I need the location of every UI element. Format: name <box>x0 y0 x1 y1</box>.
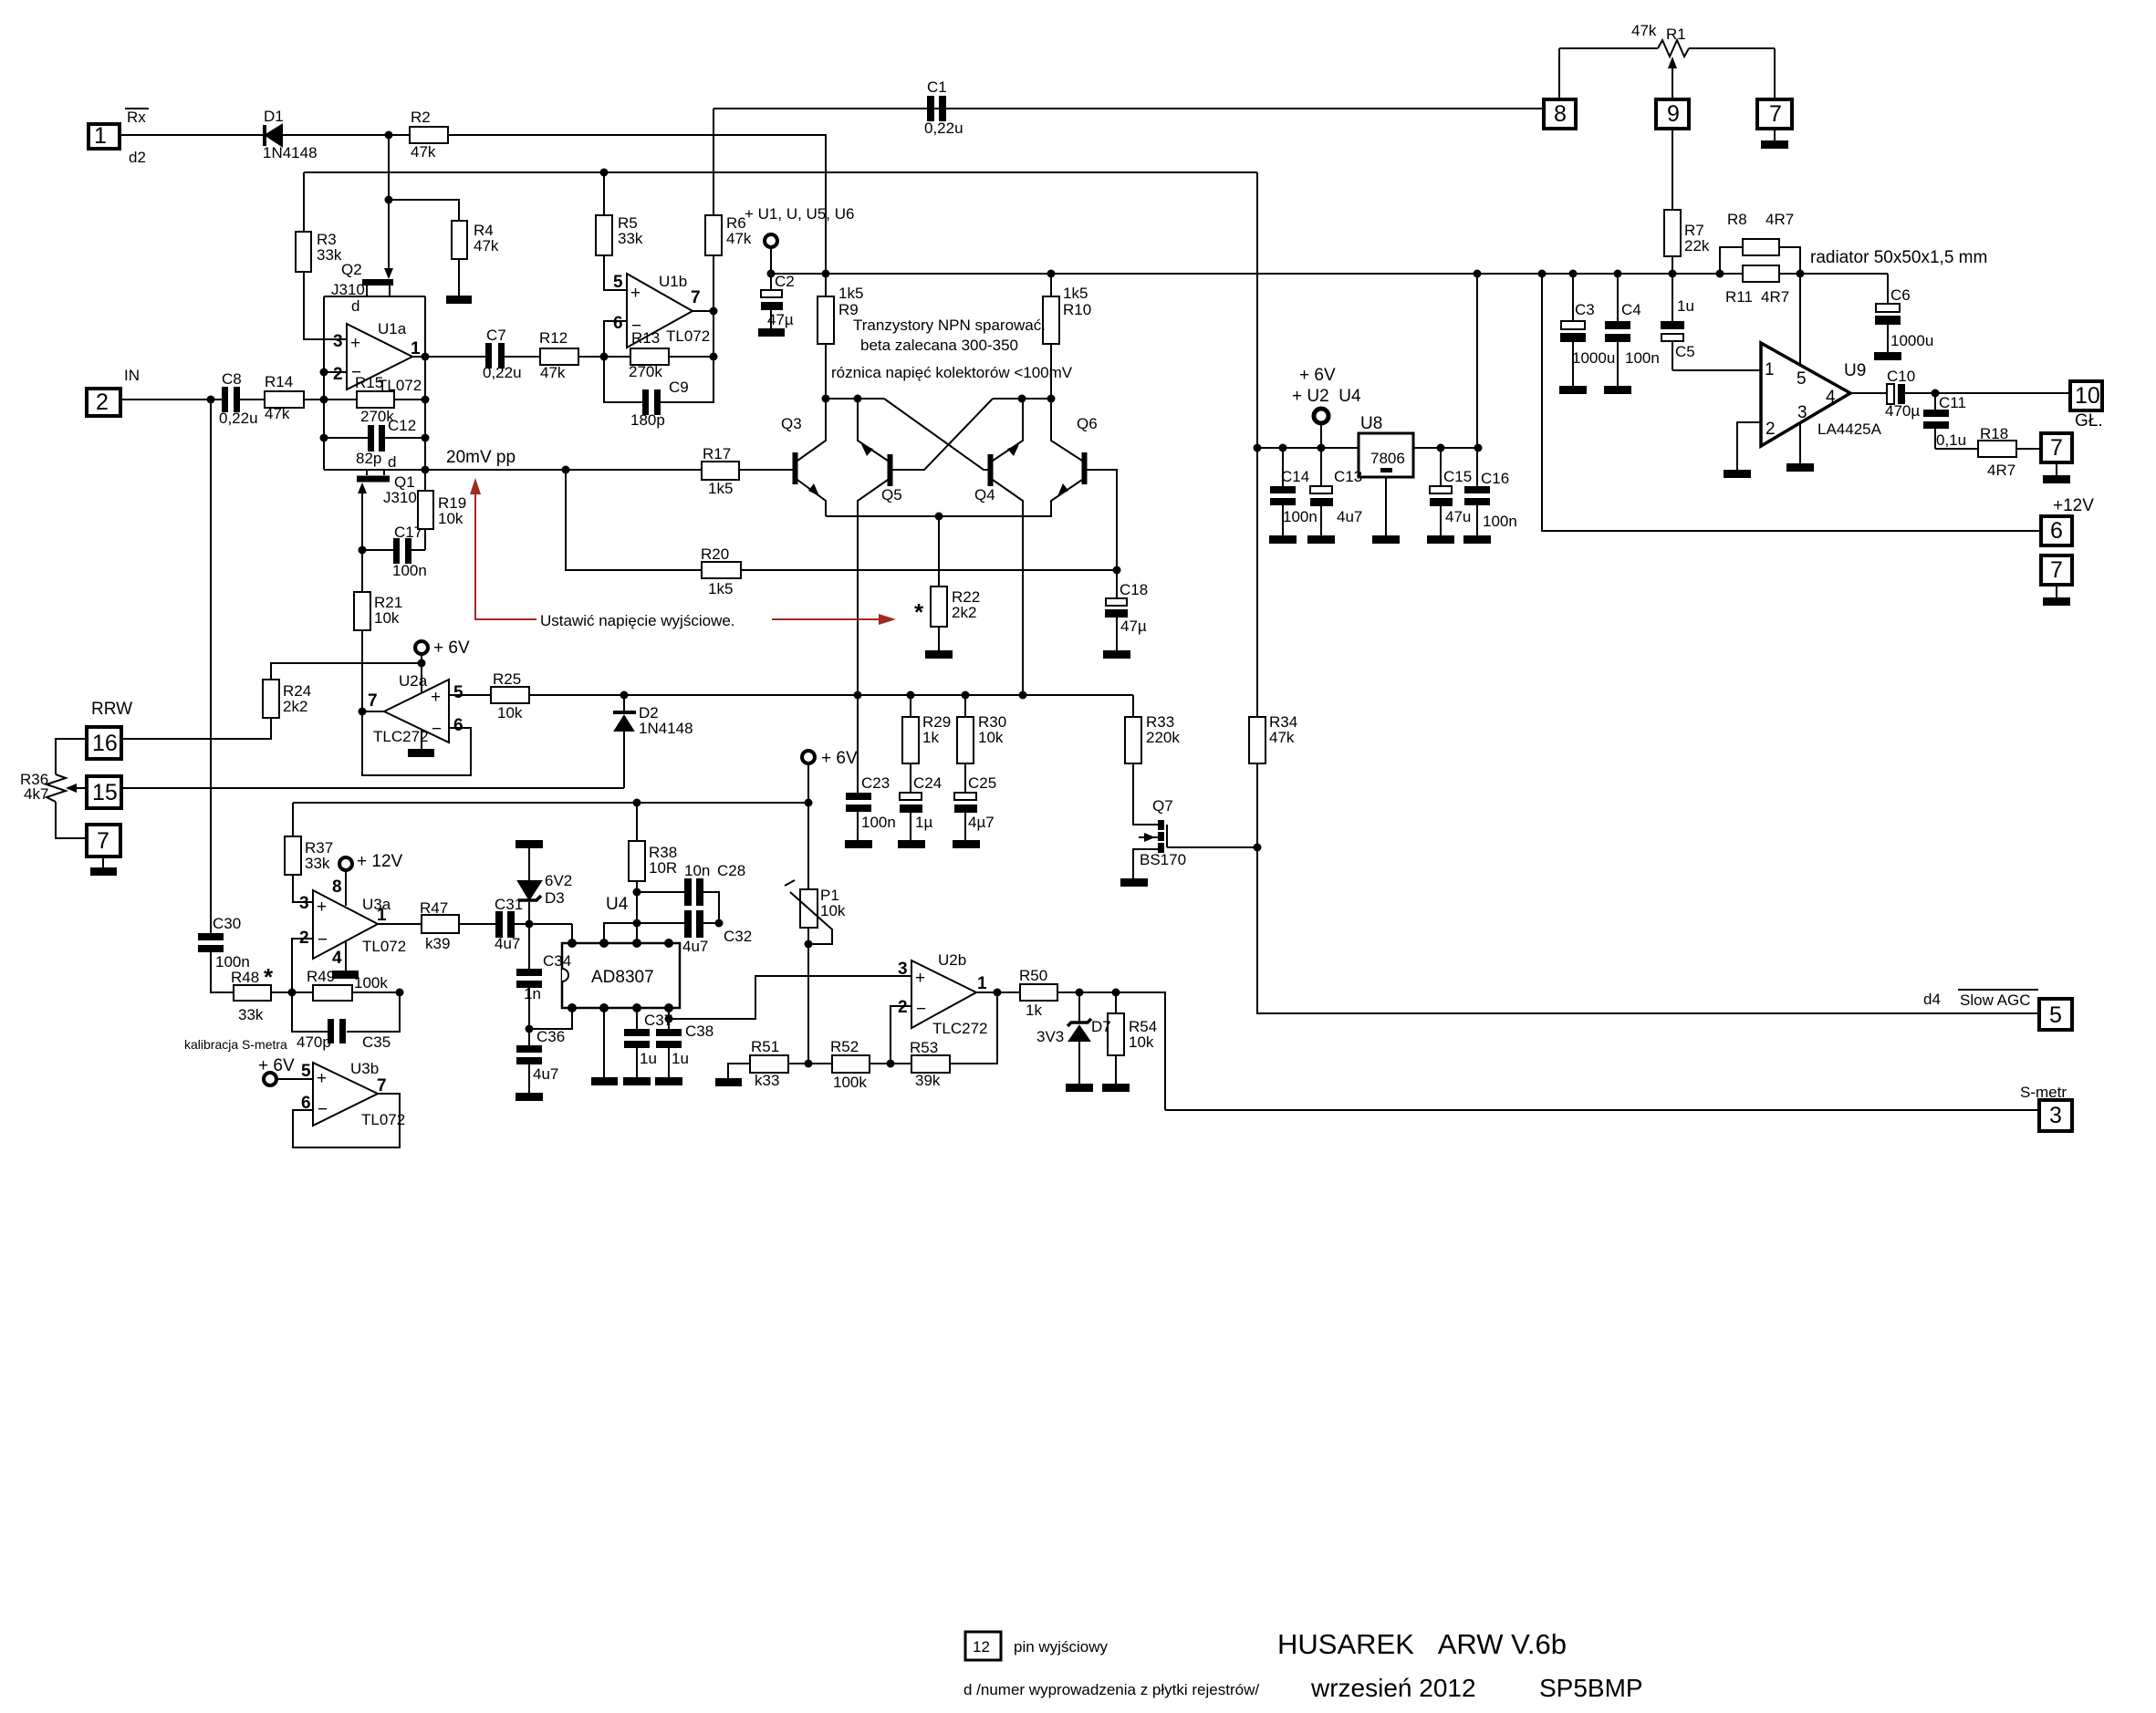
svg-text:R53: R53 <box>910 1039 938 1056</box>
node dot D3/C34 <box>526 920 534 929</box>
node junction dot at R2 left <box>385 131 393 140</box>
svg-text:1u: 1u <box>1677 297 1694 315</box>
svg-text:4R7: 4R7 <box>1761 288 1789 306</box>
wire box7top top <box>1774 48 1776 99</box>
svg-text:R14: R14 <box>265 373 293 390</box>
svg-text:d: d <box>388 453 396 471</box>
svg-text:4R7: 4R7 <box>1765 211 1794 228</box>
node dot U2a power <box>418 659 426 668</box>
svg-text:4u7: 4u7 <box>682 938 708 955</box>
svg-text:47u: 47u <box>1445 508 1471 525</box>
capacitor C6 1000u electrolytic <box>1875 274 1901 352</box>
node dot C36 top <box>526 1025 534 1033</box>
wire 20mV pp row <box>324 469 702 471</box>
wire Q3 emitter with arrow <box>797 480 826 516</box>
svg-text:U9: U9 <box>1844 361 1866 380</box>
wire R20 branch vertical <box>566 470 702 570</box>
svg-text:4u7: 4u7 <box>533 1065 558 1083</box>
resistor R6 47k <box>705 215 722 255</box>
svg-text:C28: C28 <box>717 862 745 879</box>
node dot C2 <box>767 270 776 278</box>
resistor R48 33k <box>234 985 271 1001</box>
node dot P1 wiper tie <box>805 940 813 949</box>
svg-text:d4: d4 <box>1923 991 1941 1008</box>
node dot C8 junction <box>207 396 215 404</box>
svg-text:beta zalecana 300-350: beta zalecana 300-350 <box>860 337 1018 354</box>
wire U9 pin3 to ground <box>1799 422 1801 463</box>
svg-text:33k: 33k <box>238 1006 264 1023</box>
node dot R29 top <box>907 691 915 700</box>
wire C31 to U4 node <box>515 923 572 925</box>
wire Q5 emitter down to AGC bus <box>858 480 888 695</box>
capacitor C30 100n <box>198 933 224 952</box>
wire U3b feedback loop <box>293 1094 400 1147</box>
wire U1a box right vertical <box>424 296 426 470</box>
label Slow AGC with overline <box>1958 990 2038 1009</box>
svg-text:wrzesień 2012: wrzesień 2012 <box>1310 1674 1476 1702</box>
svg-text:R52: R52 <box>830 1038 859 1055</box>
svg-text:33k: 33k <box>618 230 643 247</box>
op-amp U3b triangle TL072 <box>313 1063 378 1126</box>
svg-text:1: 1 <box>411 339 421 358</box>
wire box16 to R36 top <box>56 739 87 774</box>
svg-text:C16: C16 <box>1481 470 1509 487</box>
wire U4 output to U2b pin3 <box>669 976 911 1019</box>
svg-text:R8: R8 <box>1727 211 1747 228</box>
svg-text:12: 12 <box>973 1638 990 1656</box>
node dot C17 left <box>359 546 367 555</box>
wire U1b output to R6 vertical <box>693 310 713 312</box>
wire +6V down to node <box>421 654 422 663</box>
wire Q2 drain stub <box>389 285 391 296</box>
svg-text:AD8307: AD8307 <box>591 968 654 987</box>
P1 wiper diagonal <box>785 880 832 944</box>
node dot C3 <box>1569 270 1578 278</box>
wire R20 to C18 <box>741 569 1117 571</box>
wire C7 to R12 <box>505 356 540 358</box>
U4 notch <box>562 969 568 981</box>
svg-text:33k: 33k <box>317 246 342 264</box>
wire R19 bottom to C17 row <box>424 529 426 550</box>
svg-text:HUSAREK ARW V.6b: HUSAREK ARW V.6b <box>1277 1628 1567 1660</box>
ground left of R51 <box>715 1078 742 1086</box>
svg-text:U8: U8 <box>1360 414 1382 433</box>
svg-text:−: − <box>318 1100 328 1119</box>
wire R12 to R13 <box>578 356 630 358</box>
svg-text:C38: C38 <box>685 1023 713 1040</box>
transistor Q2 J310 bar <box>362 279 393 285</box>
node dot U1a output <box>422 353 430 361</box>
ground under box7 RRW <box>90 867 117 876</box>
svg-text:20mV pp: 20mV pp <box>446 448 516 467</box>
wire U9 pin5 from rail <box>1799 274 1801 375</box>
resistor R25 10k <box>491 687 529 703</box>
svg-text:d: d <box>351 297 359 315</box>
svg-text:1k5: 1k5 <box>708 480 733 497</box>
node dot box6 branch <box>1538 270 1547 278</box>
node dots U4 bottom pins <box>568 1003 673 1012</box>
svg-text:SP5BMP: SP5BMP <box>1539 1674 1643 1702</box>
svg-text:270k: 270k <box>629 363 662 380</box>
svg-text:4u7: 4u7 <box>495 935 520 952</box>
svg-text:+ U1, U, U5, U6: + U1, U, U5, U6 <box>745 205 854 223</box>
svg-text:−: − <box>916 1000 926 1019</box>
svg-text:8: 8 <box>1554 101 1567 127</box>
diode D1 1N4148 <box>265 125 282 146</box>
svg-text:C32: C32 <box>724 928 752 945</box>
wire R52 to R53 <box>870 1063 911 1064</box>
wire R37 to U3a pin3 <box>293 875 313 902</box>
svg-text:U1a: U1a <box>378 320 407 337</box>
op-amp U2b triangle TLC272 <box>911 960 976 1028</box>
wire R21 to U2a pin7 <box>362 630 384 711</box>
svg-text:Tranzystory NPN sparować.: Tranzystory NPN sparować. <box>853 317 1046 334</box>
capacitor C16 100n <box>1464 274 1490 535</box>
svg-text:U4: U4 <box>606 895 629 914</box>
node dot R51/R52 <box>805 1060 813 1068</box>
ground under C16 <box>1463 535 1491 544</box>
ground under C3 <box>1559 386 1587 394</box>
wire Q6 emitter with arrow <box>1051 480 1082 516</box>
resistor R54 10k <box>1108 992 1124 1084</box>
arrow Q7 body <box>1139 833 1158 842</box>
capacitor C32 4u7 <box>637 910 719 938</box>
ground under U3a <box>332 971 359 979</box>
capacitor C23 100n <box>846 695 871 840</box>
wire C2 top <box>770 274 772 290</box>
wire collector bus right (R10 node) <box>993 398 1051 400</box>
wire Q1 source stub <box>366 470 368 475</box>
svg-text:R47: R47 <box>420 899 448 917</box>
node dot C12 right <box>422 434 430 442</box>
wire R33 branch <box>1132 695 1134 717</box>
svg-text:1: 1 <box>1765 360 1775 379</box>
resistor R18 4R7 <box>1978 441 2016 457</box>
svg-text:2k2: 2k2 <box>283 698 307 715</box>
capacitor C5 1u electrolytic <box>1661 274 1684 370</box>
wire C36 node to U4 pin bottom left <box>529 1008 572 1029</box>
svg-text:kalibracja S-metra: kalibracja S-metra <box>184 1037 287 1052</box>
resistor R34 47k <box>1249 717 1265 763</box>
node dot R14/R15 <box>320 396 328 404</box>
svg-text:D7: D7 <box>1091 1018 1111 1035</box>
svg-text:6: 6 <box>613 314 623 333</box>
node Rx label <box>94 109 149 166</box>
svg-text:C30: C30 <box>213 915 241 932</box>
wire +6V to U3b pin5 <box>276 1078 313 1080</box>
wire branch to R4 <box>389 200 459 221</box>
svg-text:5: 5 <box>613 273 623 292</box>
resistor R3 33k <box>296 232 311 272</box>
svg-text:pin wyjściowy: pin wyjściowy <box>1014 1638 1108 1656</box>
svg-text:1k: 1k <box>1026 1002 1042 1019</box>
wire U2a feedback pin6 loop <box>362 711 471 775</box>
wire U1a output to right vertical <box>412 356 425 358</box>
capacitor C28 10n <box>637 878 719 910</box>
svg-text:C5: C5 <box>1675 343 1695 360</box>
node dot R7/C5 <box>1669 270 1677 278</box>
resistor R1 47k potentiometer top <box>1559 40 1775 57</box>
svg-text:100k: 100k <box>354 974 388 991</box>
svg-text:100n: 100n <box>861 814 896 831</box>
svg-text:C9: C9 <box>669 379 689 396</box>
capacitor C11 0,1u <box>1923 393 1949 449</box>
svg-text:−: − <box>631 317 641 336</box>
resistor R49 100k <box>313 985 352 1001</box>
wire R4 to ground <box>458 259 460 296</box>
wire R36 bottom to box7 <box>56 802 87 838</box>
wire C18 to ground <box>1116 618 1118 650</box>
power terminal +6V circle (P1) <box>802 751 815 763</box>
svg-text:U2b: U2b <box>938 951 966 969</box>
ground under box 7 top <box>1761 140 1788 149</box>
svg-text:1k5: 1k5 <box>1063 285 1088 302</box>
op-amp U3a triangle TL072 <box>313 890 378 959</box>
svg-text:róznica napięć kolektorów <100: róznica napięć kolektorów <100mV <box>831 364 1073 381</box>
red annotation arrow right at R22 <box>772 614 896 625</box>
svg-text:+: + <box>915 969 925 988</box>
wire D1 to R2 <box>282 134 410 136</box>
svg-text:1000u: 1000u <box>1890 332 1933 349</box>
wire B main AGC line y=189 <box>304 171 1257 173</box>
svg-text:d2: d2 <box>129 149 146 166</box>
resistor R21 10k <box>354 592 370 630</box>
power terminal +6V circle (U3b) <box>264 1073 276 1085</box>
svg-text:47k: 47k <box>265 405 290 422</box>
resistor R20 1k5 <box>702 562 741 578</box>
wire R6 vertical with corner to C1 wire <box>713 109 714 402</box>
svg-text:7: 7 <box>368 691 378 711</box>
svg-text:1u: 1u <box>640 1050 657 1067</box>
svg-text:R50: R50 <box>1019 967 1047 984</box>
wire R13 right to R6 vertical <box>669 356 713 358</box>
wire R19 top <box>424 470 426 491</box>
svg-text:+ 6V: + 6V <box>258 1056 295 1075</box>
wire R47 to C31 <box>459 923 496 925</box>
svg-text:TLC272: TLC272 <box>932 1020 987 1037</box>
svg-text:100n: 100n <box>392 562 427 579</box>
resistor R11 4R7 <box>1743 265 1779 282</box>
svg-text:8: 8 <box>332 877 342 897</box>
svg-text:C1: C1 <box>927 78 947 96</box>
svg-text:1k: 1k <box>922 729 939 746</box>
node dot R8/R11 right <box>1797 270 1805 278</box>
svg-text:BS170: BS170 <box>1140 851 1186 868</box>
svg-text:5: 5 <box>2049 1002 2062 1028</box>
wire U2b pin2 from divider <box>891 1006 911 1064</box>
svg-text:33k: 33k <box>305 855 330 872</box>
resistor R4 47k <box>452 221 467 259</box>
power terminal +12V circle <box>339 857 352 870</box>
connector box 7 lower right <box>2041 555 2072 585</box>
wire emitter bus y=566 <box>826 515 1052 517</box>
op-amp U1a triangle TL072 <box>347 324 412 389</box>
resistor R5 33k <box>596 215 612 255</box>
transistor Q5 bar <box>888 454 893 486</box>
logarithmic amp U4 AD8307 box <box>562 943 680 1008</box>
svg-text:16: 16 <box>92 731 118 756</box>
svg-text:4µ7: 4µ7 <box>968 814 995 831</box>
svg-text:+: + <box>431 688 441 707</box>
ground under C25 <box>953 840 980 848</box>
svg-text:10k: 10k <box>978 729 1004 746</box>
svg-text:6: 6 <box>2050 518 2063 544</box>
wire cross-couple diagonal B (R10 node to Q5 base) <box>892 399 993 470</box>
wire box9 to R7 <box>1672 129 1673 210</box>
connector box 10 <box>2070 381 2102 410</box>
svg-text:R18: R18 <box>1980 425 2008 442</box>
wire R38 column <box>636 803 638 943</box>
ground above D3 <box>516 840 543 848</box>
connector box 7 top <box>1757 99 1792 129</box>
connector box 16 <box>87 727 121 759</box>
svg-text:C4: C4 <box>1621 301 1641 318</box>
svg-text:3: 3 <box>333 332 343 351</box>
svg-text:radiator 50x50x1,5 mm: radiator 50x50x1,5 mm <box>1810 248 1987 267</box>
svg-text:C13: C13 <box>1334 468 1362 485</box>
potentiometer R36 4k7 zigzag <box>47 774 66 802</box>
svg-text:C34: C34 <box>543 952 571 970</box>
svg-text:1k5: 1k5 <box>838 285 863 302</box>
svg-text:IN: IN <box>124 367 140 384</box>
wire Q6 base to C18 node <box>1087 470 1117 598</box>
arrow Q5 upper <box>861 444 873 456</box>
wire C12 row <box>324 437 425 439</box>
wire box7 GL to ground <box>2056 462 2057 475</box>
svg-text:C2: C2 <box>775 273 795 290</box>
capacitor C13 4u7 electrolytic <box>1310 448 1333 535</box>
wire R34 down to Slow AGC line <box>1257 763 2039 1013</box>
node dot U1b output <box>710 307 718 316</box>
wire C2 to ground <box>770 310 772 328</box>
node dot rail at x1378 <box>1254 444 1262 452</box>
svg-text:TL072: TL072 <box>361 1111 405 1128</box>
wire R5 top <box>603 172 605 215</box>
svg-text:R25: R25 <box>493 670 521 688</box>
wire C5 to U9 pin1 <box>1672 369 1761 371</box>
wire U2a power through triangle to ground <box>421 663 422 749</box>
node dot R38 top <box>633 799 641 807</box>
wire Q4 collector <box>993 399 1023 461</box>
ground under U8 <box>1372 535 1400 544</box>
node dot D7 top <box>1076 989 1084 997</box>
ground under U9 pin3 <box>1786 463 1814 472</box>
svg-text:0,22u: 0,22u <box>483 364 522 381</box>
svg-text:7: 7 <box>97 828 109 854</box>
capacitor C38 1u <box>656 1008 682 1077</box>
capacitor C4 100n <box>1605 274 1630 386</box>
wire Q6 collector <box>1051 399 1082 461</box>
svg-text:2: 2 <box>898 998 908 1017</box>
svg-text:10k: 10k <box>438 510 463 527</box>
svg-text:TL072: TL072 <box>666 327 710 345</box>
resistor R22 2k2 <box>931 587 947 627</box>
resistor R38 10R <box>629 841 645 881</box>
wire C30 to R48 <box>211 952 234 992</box>
svg-text:3: 3 <box>898 960 908 979</box>
svg-text:5: 5 <box>453 683 463 702</box>
resistor R53 39k <box>911 1055 950 1073</box>
wire R22 top <box>938 516 940 587</box>
transistor Q3 bar <box>793 452 798 484</box>
svg-text:k39: k39 <box>425 935 450 952</box>
svg-text:Q4: Q4 <box>974 486 995 504</box>
resistor R14 47k <box>265 391 304 408</box>
resistor R13 270k <box>630 348 669 365</box>
connector box 2 (IN) <box>87 389 120 416</box>
node dot C18 top <box>1113 566 1121 575</box>
svg-text:+: + <box>317 1069 327 1088</box>
svg-text:82p: 82p <box>356 450 381 467</box>
wire vertical from Rx node down through wire B <box>388 135 390 270</box>
svg-text:+ 12V: + 12V <box>357 852 403 871</box>
node dot C16 <box>1474 444 1483 452</box>
wire U8 input rail <box>1257 447 1478 449</box>
op-amp U1b triangle TL072 <box>627 274 693 348</box>
wire R7 to rail <box>1672 256 1673 274</box>
node dot 20mV at U1a box right <box>422 466 430 474</box>
svg-text:1N4148: 1N4148 <box>263 144 318 161</box>
svg-text:C12: C12 <box>388 417 416 434</box>
wire +12V rail y=300 <box>771 273 1888 275</box>
svg-text:C3: C3 <box>1575 301 1595 318</box>
svg-text:R48: R48 <box>231 969 259 986</box>
resistor R8 4R7 <box>1743 239 1779 255</box>
zener D3 6V2 <box>518 848 541 924</box>
node dot R52/R53 <box>887 1060 895 1068</box>
wire U8 ground <box>1385 477 1387 535</box>
svg-text:47k: 47k <box>540 364 566 381</box>
svg-text:k33: k33 <box>755 1072 779 1089</box>
wire U2b output <box>976 991 1020 993</box>
wire U9 output <box>1850 392 1888 394</box>
power terminal +6V circle (U2a) <box>415 641 428 654</box>
svg-text:4k7: 4k7 <box>24 785 48 803</box>
resistor R10 1k5 <box>1043 274 1059 344</box>
capacitor C7 0,22u <box>485 343 505 369</box>
arrow R1 wiper from box9 <box>1668 57 1677 99</box>
connector box 6 <box>2041 516 2072 545</box>
svg-text:7: 7 <box>691 288 701 307</box>
wire U1a box left vertical <box>323 296 325 470</box>
wire collector bus left (R9 node) <box>826 398 884 400</box>
node dot Q7 drain R34 <box>1254 844 1262 852</box>
capacitor C9 180p <box>642 389 661 415</box>
wire +U2 to rail <box>1320 423 1322 448</box>
resistor R19 10k <box>418 491 433 529</box>
svg-text:C18: C18 <box>1120 581 1148 598</box>
wire AGC vertical x=1378 (wire B down to U8 rail and R34) <box>1256 172 1258 717</box>
node dot R8/R11 left <box>1716 270 1724 278</box>
svg-text:U2a: U2a <box>399 672 428 690</box>
wire R8 loop <box>1720 247 1800 274</box>
diode D2 1N4148 <box>613 695 636 788</box>
svg-text:6: 6 <box>453 716 463 735</box>
ground under Q7 <box>1120 878 1148 887</box>
wire Q3 collector <box>797 399 826 461</box>
wire U3a output <box>378 923 422 925</box>
wire R2 right to corner then down to +12V rail <box>448 135 826 274</box>
amplifier U9 LA4425A triangle <box>1761 343 1850 446</box>
svg-text:Q3: Q3 <box>781 415 802 432</box>
wire C10 to box10 <box>1905 392 2070 394</box>
svg-text:2k2: 2k2 <box>952 604 976 621</box>
wire Q7 drain to R34 node <box>1167 846 1257 848</box>
svg-text:3: 3 <box>299 894 309 913</box>
node dot R15 right <box>422 396 430 404</box>
svg-text:C14: C14 <box>1281 468 1309 485</box>
ground under C13 <box>1307 535 1335 544</box>
